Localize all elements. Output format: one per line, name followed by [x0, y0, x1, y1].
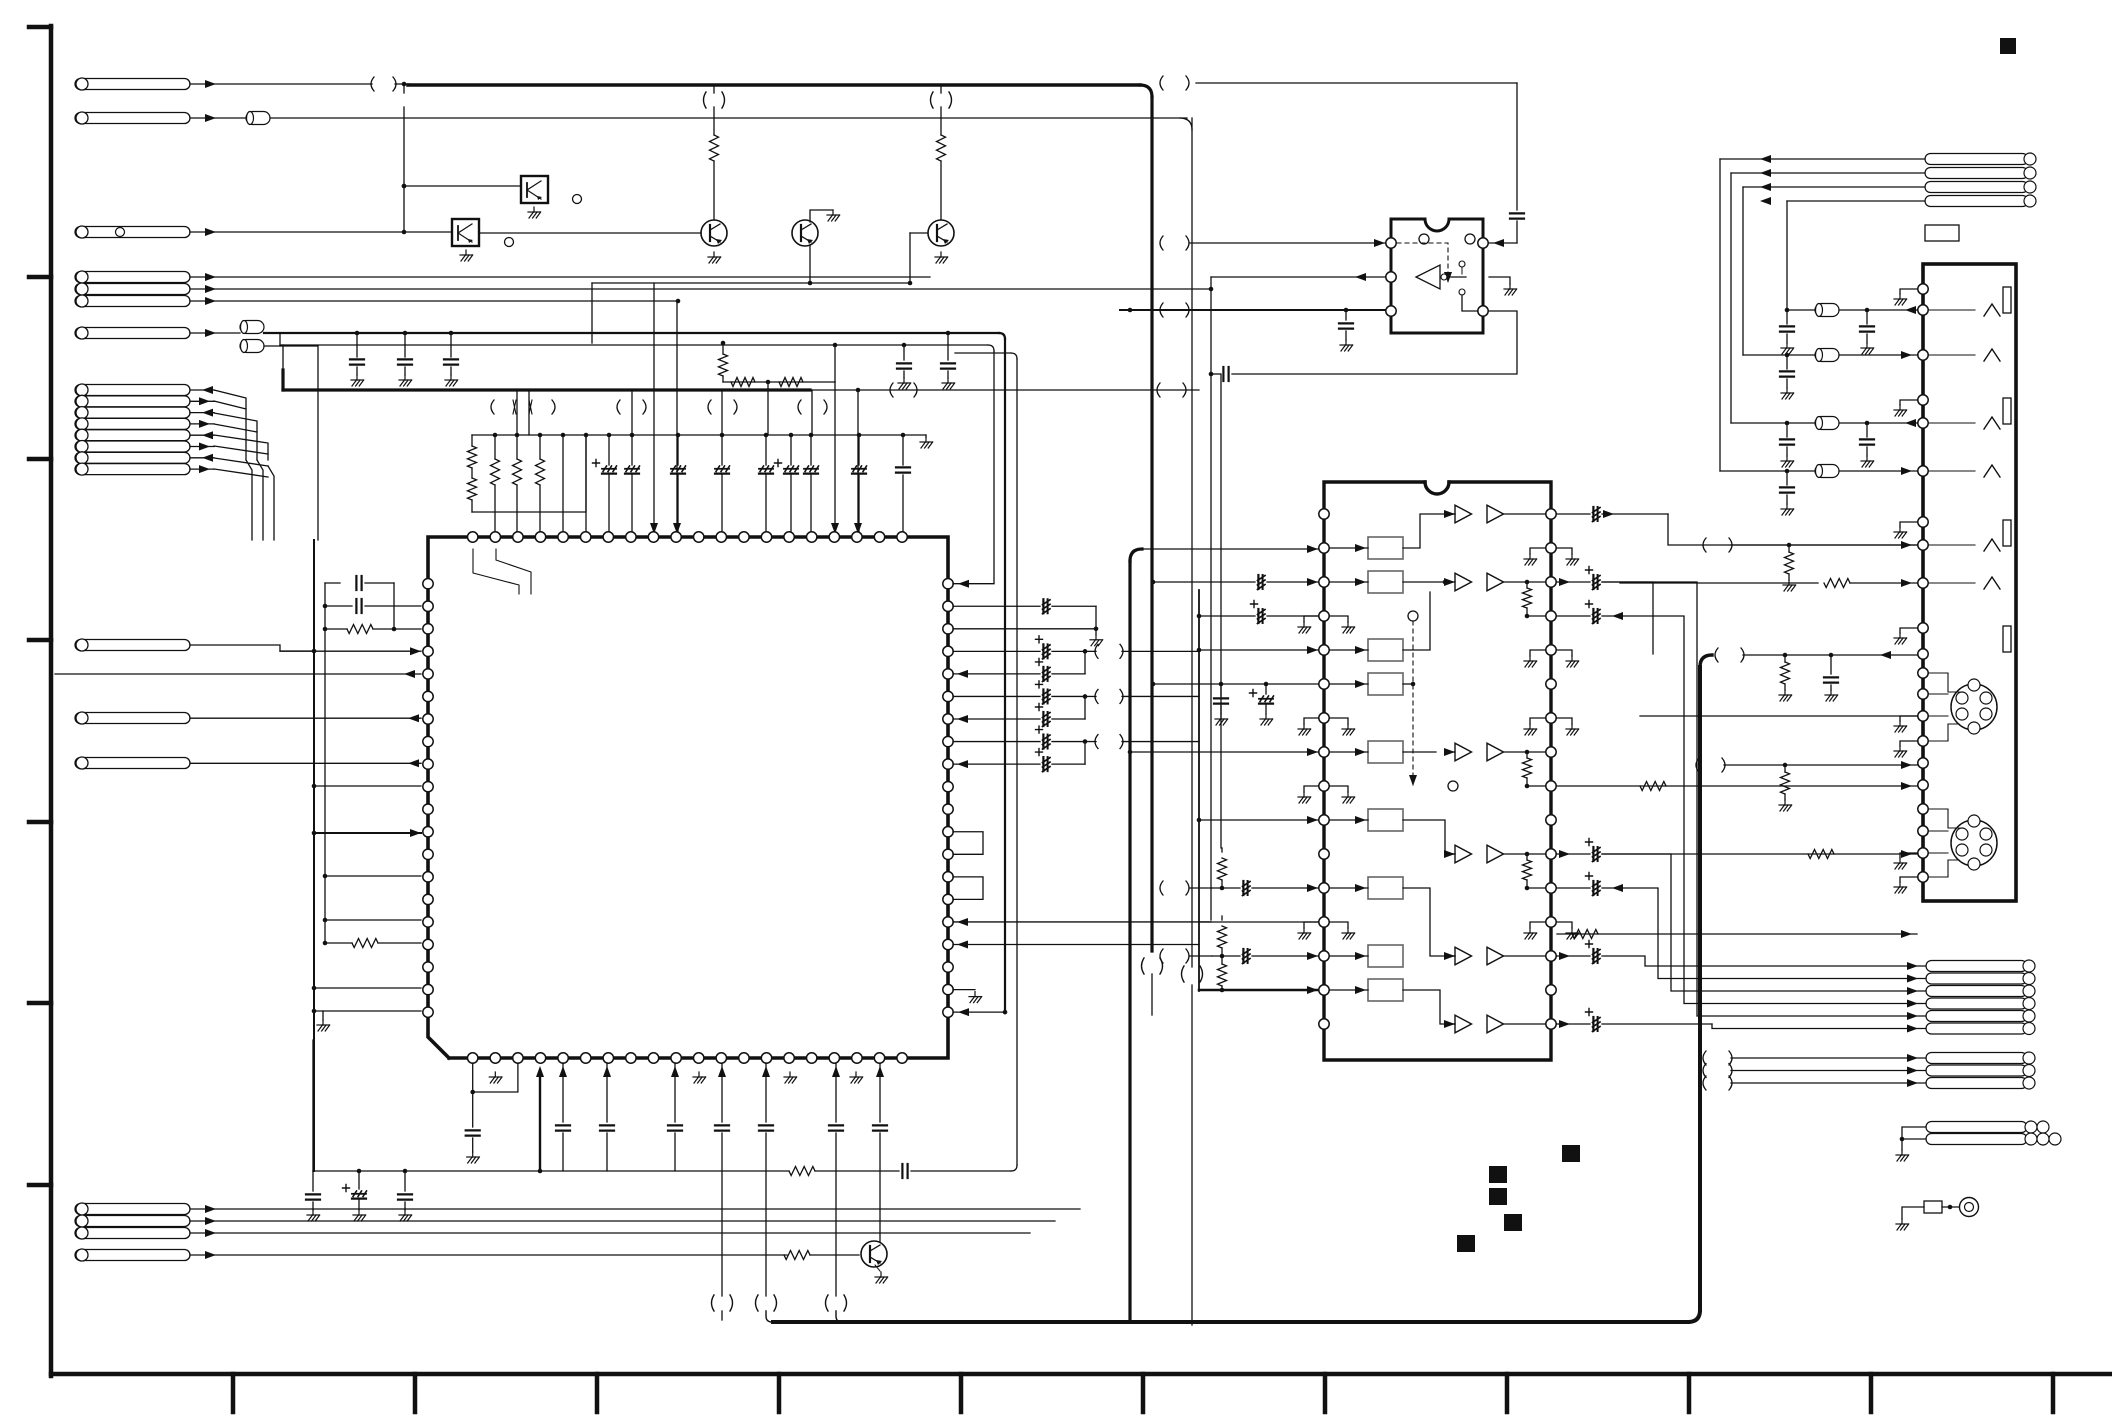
IC U2 left pin 5 — [1319, 645, 1329, 655]
wire — [1557, 581, 1590, 583]
IC U2 left pin 7 — [1319, 713, 1329, 723]
wire vert — [324, 583, 326, 651]
jack sleeve — [2003, 520, 2011, 546]
resistor — [539, 435, 541, 459]
IC U1 top pin 14 — [761, 532, 771, 542]
IC U1 top pin 18 — [852, 532, 862, 542]
connector break v — [704, 92, 707, 108]
wire bundle — [246, 460, 252, 540]
wire — [1199, 615, 1255, 617]
connector break — [1160, 303, 1163, 317]
wire — [1122, 695, 1199, 697]
IC U1 right pin 3 — [943, 646, 953, 656]
capacitor — [1345, 310, 1347, 320]
wire — [810, 389, 1199, 391]
jack panel pin — [1918, 736, 1928, 746]
wire — [325, 919, 421, 921]
wire — [1557, 1023, 1590, 1025]
IC U2 left pin 10 — [1319, 815, 1329, 825]
wire — [1557, 955, 1590, 957]
wire — [1130, 751, 1318, 753]
wire loop — [953, 832, 983, 855]
wire — [190, 276, 930, 278]
jack sleeve — [2003, 287, 2011, 313]
wire — [767, 382, 769, 435]
resistor — [1788, 545, 1790, 552]
connector break — [1696, 758, 1699, 772]
wire — [713, 161, 715, 220]
wire — [190, 400, 214, 402]
border tick left 3 — [29, 638, 51, 643]
wire — [1645, 957, 1926, 966]
connector top-right 2 — [1925, 168, 2028, 179]
ground — [1530, 650, 1545, 656]
wire — [592, 282, 910, 284]
wire — [1330, 649, 1368, 651]
IC U2 left pin 4 — [1319, 611, 1329, 621]
connector P-in2 — [75, 713, 190, 724]
wire — [1461, 267, 1463, 274]
wire — [314, 785, 421, 787]
wire — [1445, 513, 1455, 515]
wire — [1445, 955, 1455, 957]
jack sleeve — [2003, 626, 2011, 652]
IC U1 left pin 5 — [423, 691, 433, 701]
ground — [940, 252, 942, 257]
resistor — [325, 628, 347, 630]
capacitor — [404, 333, 406, 357]
wire — [721, 1311, 723, 1320]
op-amp — [1455, 505, 1472, 523]
capacitor — [1786, 310, 1788, 324]
capacitor — [608, 435, 610, 465]
IC U2 right pin 10 — [1546, 815, 1556, 825]
op-amp — [1487, 845, 1504, 863]
ground — [1900, 400, 1917, 405]
wire — [1462, 295, 1478, 311]
wire — [190, 762, 421, 764]
ground — [450, 375, 452, 380]
connector P4 — [75, 272, 190, 283]
IC U1 left pin 2 — [423, 624, 433, 634]
capacitor — [1786, 471, 1788, 485]
resistor R-T3 — [937, 135, 946, 161]
wire — [953, 628, 1096, 630]
op-amp — [1487, 505, 1504, 523]
wire — [190, 389, 214, 391]
capacitor — [677, 435, 679, 465]
IC U1 bottom pin 12 — [716, 1053, 726, 1063]
bus thick — [283, 388, 810, 391]
connector break — [1715, 648, 1718, 662]
ground — [1095, 629, 1097, 635]
wire — [1602, 887, 1658, 889]
IC U1 top pin 7 — [603, 532, 613, 542]
wire — [190, 1208, 1080, 1210]
wire — [834, 345, 836, 382]
IC U3 pin1 — [1386, 238, 1396, 248]
IC U1 bottom pin 10 — [671, 1053, 681, 1063]
IC U1 right pin 8 — [943, 759, 953, 769]
node — [1408, 611, 1418, 621]
wire — [395, 83, 410, 85]
capacitor — [1222, 367, 1224, 381]
IC U1 right pin 14 — [943, 894, 953, 904]
IC U1 bottom pin 6 — [581, 1053, 591, 1063]
IC U1 left pin 14 — [423, 894, 433, 904]
capacitor — [325, 582, 340, 584]
wire — [1731, 544, 1917, 546]
label box — [1925, 225, 1959, 241]
wire — [940, 161, 942, 220]
wire — [1052, 605, 1096, 607]
wire — [1190, 955, 1212, 957]
wire capacitor row — [953, 695, 1040, 697]
resistor — [1218, 926, 1227, 948]
capacitor — [358, 1171, 360, 1189]
junction — [538, 433, 543, 438]
IC U2 right pin 8 — [1546, 747, 1556, 757]
ground — [404, 375, 406, 380]
IC U1 right pin 5 — [943, 691, 953, 701]
ground — [1557, 650, 1572, 656]
wire capacitor row — [953, 763, 1040, 765]
wire — [835, 1063, 837, 1122]
wire vert — [1004, 339, 1006, 1011]
capacitor — [356, 333, 358, 357]
op-amp — [1455, 743, 1472, 761]
resistor — [516, 435, 518, 459]
wire — [1929, 808, 1948, 810]
wire — [1526, 615, 1528, 617]
wire — [562, 1063, 564, 1122]
wire — [1743, 654, 1917, 656]
ground — [1786, 456, 1788, 461]
IC U1 right pin 16 — [943, 939, 953, 949]
jack panel pin — [1918, 872, 1928, 882]
IC U1 right pin 9 — [943, 781, 953, 791]
wire — [721, 1133, 723, 1296]
jack contact — [1929, 582, 1975, 584]
connector BR6-3 — [1926, 986, 2027, 997]
capacitor — [1592, 881, 1594, 895]
wire — [1948, 809, 1959, 828]
connector P3 — [75, 227, 190, 238]
jack panel pin — [1918, 668, 1928, 678]
wire — [766, 1311, 772, 1322]
bus vertical — [1150, 97, 1153, 951]
wire — [953, 1011, 1005, 1013]
wire — [1403, 820, 1455, 854]
wire — [282, 345, 284, 370]
wire — [1602, 853, 1917, 855]
wire — [1731, 172, 1925, 174]
connector break — [1703, 538, 1706, 552]
border tick left 5 — [29, 1001, 51, 1006]
bus A corner top — [1130, 549, 1142, 561]
wire — [1527, 615, 1545, 617]
wire — [1612, 612, 1623, 620]
connector break — [1703, 1076, 1706, 1090]
ground — [1866, 343, 1868, 348]
wire — [1403, 683, 1413, 685]
ferrite bead FB1 — [246, 112, 270, 125]
wire — [472, 435, 586, 512]
ground — [1530, 922, 1545, 928]
wire — [1085, 695, 1096, 697]
IC U2 right pin 9 — [1546, 781, 1556, 791]
wire — [312, 1040, 314, 1171]
wire — [1196, 82, 1517, 84]
IC U2 left pin 2 — [1319, 543, 1329, 553]
wire — [190, 300, 678, 302]
connector P8-1 — [75, 385, 190, 396]
wire — [925, 435, 927, 437]
wire — [1084, 742, 1086, 765]
wire — [471, 435, 473, 446]
wire — [879, 1063, 881, 1122]
ground — [1900, 877, 1917, 882]
wire — [1190, 242, 1385, 244]
capacitor — [668, 1124, 682, 1126]
wire — [1787, 309, 1815, 311]
IC U2 left pin 14 — [1319, 951, 1329, 961]
ground — [404, 1210, 406, 1215]
IC U2 left pin 6 — [1319, 679, 1329, 689]
bus U vert right — [1698, 667, 1702, 1310]
ground — [356, 375, 358, 380]
jack panel pin — [1918, 848, 1928, 858]
connector P-in1 — [75, 640, 190, 651]
IC U1 top pin 10 — [671, 532, 681, 542]
ground — [1220, 714, 1222, 719]
IC U2 left pin 16 — [1319, 1019, 1329, 1029]
connector BR6-2 — [1926, 973, 2027, 984]
resistor — [468, 478, 477, 500]
ferrite bead — [1815, 465, 1839, 478]
op-amp — [1487, 1015, 1504, 1033]
connector top-right 3 — [1925, 182, 2028, 193]
wire — [585, 435, 587, 532]
wire — [1330, 581, 1368, 583]
wire — [836, 1311, 842, 1322]
wire — [1602, 853, 1671, 855]
wire — [1697, 583, 1926, 1016]
wire — [1730, 173, 1732, 423]
op-amp — [1487, 573, 1504, 591]
wire — [1403, 581, 1445, 583]
op-amp — [1487, 947, 1504, 965]
wire — [471, 500, 473, 512]
jack sleeve — [2003, 398, 2011, 424]
wire — [953, 989, 975, 991]
connector P6 — [75, 296, 190, 307]
wire — [1445, 751, 1455, 753]
wire — [1602, 581, 1697, 583]
ground — [1330, 786, 1348, 792]
connector PB4 — [75, 1250, 190, 1261]
IC U1 top pin 16 — [807, 532, 817, 542]
DIN connector J2 — [1951, 820, 1997, 866]
wire — [325, 875, 421, 877]
wire — [721, 390, 723, 435]
wire — [1085, 741, 1096, 743]
function box — [1368, 877, 1403, 899]
IC U1 left pin 12 — [423, 849, 433, 859]
wire — [190, 468, 214, 470]
jack contact — [1929, 309, 1975, 311]
fiducial square — [1504, 1214, 1522, 1231]
connector P8-5 — [75, 430, 190, 441]
wire — [722, 343, 724, 354]
wire — [1084, 696, 1086, 719]
wire capacitor row — [953, 741, 1040, 743]
connector break — [798, 400, 801, 414]
IC U1 left pin 10 — [423, 804, 433, 814]
jack panel pin — [1918, 284, 1928, 294]
wire — [1516, 83, 1518, 210]
ground — [947, 378, 949, 383]
resistor — [719, 354, 728, 376]
ground — [1530, 548, 1545, 554]
IC U2 left pin 1 — [1319, 509, 1329, 519]
ground — [1900, 716, 1917, 721]
jack panel pin — [1918, 758, 1928, 768]
wire — [1330, 547, 1368, 549]
wire — [674, 1063, 676, 1122]
wire — [393, 583, 395, 629]
inverter — [1416, 265, 1440, 289]
ground — [494, 1072, 496, 1077]
wire — [1902, 1127, 1926, 1150]
wire — [1839, 309, 1917, 311]
IC U3 outline — [1391, 219, 1483, 333]
jack contact — [1929, 354, 1975, 356]
IC U1 left pin 4 — [423, 669, 433, 679]
jack contact — [1929, 544, 1975, 546]
wire — [765, 1063, 767, 1122]
IC U1 left pin 9 — [423, 781, 433, 791]
resistor — [1526, 752, 1528, 758]
connector break — [890, 383, 893, 397]
resistor — [1526, 582, 1528, 588]
wire — [606, 1063, 608, 1122]
wire — [1199, 649, 1318, 651]
wire — [528, 390, 530, 435]
wire thick arrow — [539, 1074, 541, 1171]
resistor — [784, 1251, 810, 1260]
jack panel pin — [1918, 780, 1928, 790]
IC U1 right pin 2 — [943, 624, 953, 634]
wire — [264, 345, 318, 347]
IC U2 right pin 15 — [1546, 985, 1556, 995]
indicator circle — [1465, 234, 1475, 244]
IC U1 bottom pin 8 — [626, 1053, 636, 1063]
ground — [1304, 718, 1318, 724]
wire — [471, 468, 473, 478]
connector break — [1703, 1064, 1706, 1078]
wire — [721, 1063, 723, 1122]
IC U2 analog switch outline — [1324, 482, 1551, 1060]
IC U1 bottom pin 18 — [852, 1053, 862, 1063]
connector break — [1703, 1051, 1706, 1065]
ground — [1345, 340, 1347, 345]
op-amp — [1455, 947, 1472, 965]
ground — [1900, 522, 1917, 527]
IC U2 right pin 14 — [1546, 951, 1556, 961]
wire — [403, 107, 405, 232]
resistor — [1218, 858, 1227, 880]
wire — [1199, 921, 1318, 923]
indicator circle — [1419, 234, 1429, 244]
ground — [1901, 1150, 1903, 1155]
wire — [910, 232, 928, 234]
wire — [190, 117, 246, 119]
wire — [713, 85, 715, 93]
capacitor — [790, 435, 792, 465]
indicator circle — [505, 238, 514, 247]
transistor Q4 — [861, 1241, 887, 1267]
jack contact — [1929, 470, 1975, 472]
jack panel pin — [1918, 826, 1928, 836]
ground — [1557, 548, 1572, 554]
IC U1 right pin 7 — [943, 736, 953, 746]
wire — [1640, 715, 1917, 717]
wire — [1557, 887, 1590, 889]
wire — [190, 1232, 1030, 1234]
IC U1 top pin 20 — [897, 532, 907, 542]
wire — [653, 283, 655, 532]
IC U1 bottom pin 19 — [874, 1053, 884, 1063]
wire — [631, 390, 633, 435]
wire — [1731, 1070, 1926, 1072]
connector BR2 — [1926, 1134, 2027, 1145]
ground — [533, 207, 535, 212]
dashed wire — [1412, 621, 1414, 786]
wire — [1731, 422, 1815, 424]
wire — [1330, 683, 1368, 685]
wire — [1787, 200, 1925, 202]
capacitor — [1592, 575, 1594, 589]
IC U3 pin4 — [1478, 306, 1488, 316]
wire — [1190, 887, 1212, 889]
wire — [1720, 158, 1925, 160]
bus U corner top — [1700, 655, 1712, 667]
connector break — [1160, 76, 1163, 90]
wire — [676, 301, 678, 532]
ground — [1330, 616, 1348, 622]
capacitor — [1242, 949, 1244, 963]
capacitor — [1866, 423, 1868, 437]
capacitor — [1830, 655, 1832, 674]
wire — [190, 83, 372, 85]
wire — [1602, 955, 1645, 957]
wire capacitor row — [953, 673, 1040, 675]
jack panel pin — [1918, 804, 1928, 814]
IC U3 pin3 — [1386, 306, 1396, 316]
ground — [358, 1210, 360, 1215]
connector break v — [1182, 966, 1185, 982]
bus vert left — [281, 370, 284, 390]
ground — [322, 1020, 324, 1025]
ferrite bead FB2a — [240, 321, 264, 334]
connector BR3-1 — [1926, 1053, 2027, 1064]
wire — [190, 457, 214, 459]
IC U2 right pin 5 — [1546, 645, 1556, 655]
wire — [1330, 887, 1368, 889]
IC U2 right pin 6 — [1546, 679, 1556, 689]
wire — [404, 185, 521, 187]
